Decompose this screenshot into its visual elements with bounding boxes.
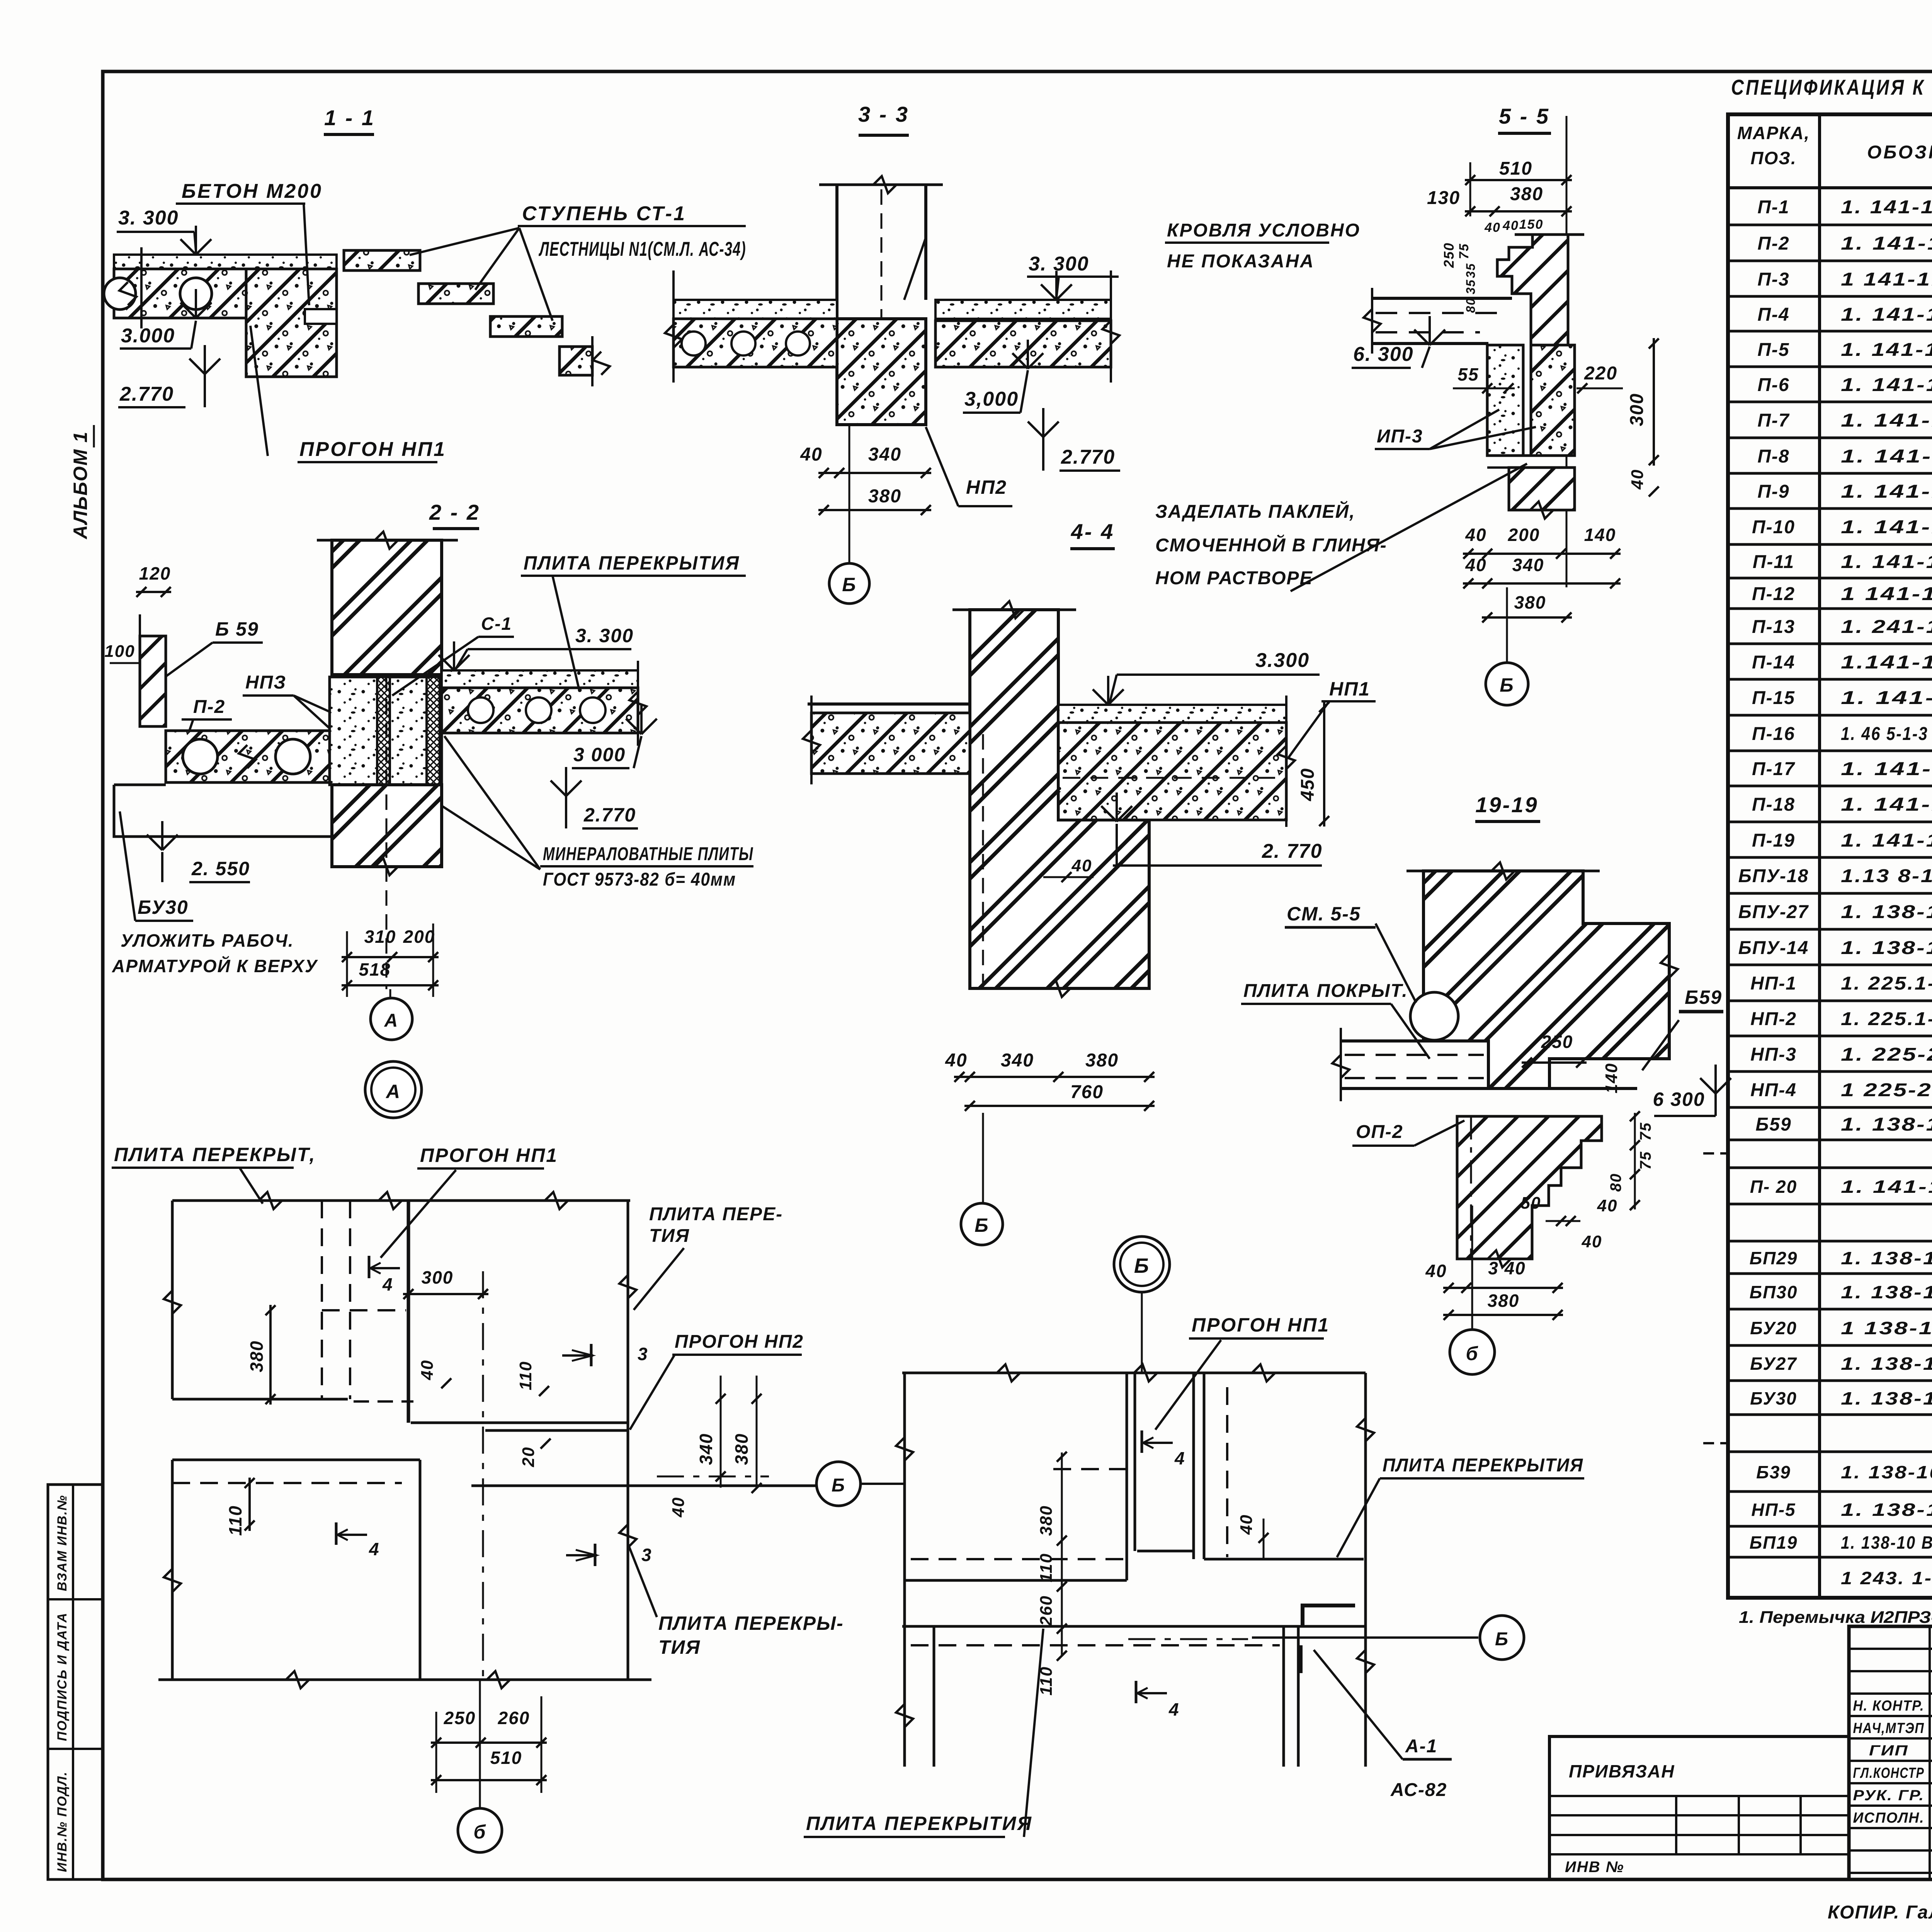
svg-text:3. 300: 3. 300 bbox=[575, 625, 634, 646]
svg-text:БУ27: БУ27 bbox=[1750, 1354, 1797, 1374]
section 19-19 roof slab left bbox=[1341, 1039, 1488, 1043]
section 19-19 masonry block hatched bbox=[1423, 871, 1669, 1088]
svg-text:760: 760 bbox=[1070, 1082, 1104, 1102]
svg-text:140: 140 bbox=[1602, 1063, 1621, 1093]
svg-text:МАРКА,: МАРКА, bbox=[1737, 123, 1810, 143]
svg-text:4: 4 bbox=[1168, 1699, 1180, 1719]
svg-text:ПЛИТА ПЕРЕКРЫ-: ПЛИТА ПЕРЕКРЫ- bbox=[658, 1612, 844, 1634]
svg-text:НП-5: НП-5 bbox=[1751, 1500, 1796, 1520]
svg-text:УЛОЖИТЬ РАБОЧ.: УЛОЖИТЬ РАБОЧ. bbox=[121, 930, 294, 951]
svg-text:П-2: П-2 bbox=[193, 697, 225, 717]
svg-text:СТУПЕНЬ СТ-1: СТУПЕНЬ СТ-1 bbox=[522, 202, 686, 225]
double circle B axis mark bbox=[1114, 1236, 1170, 1292]
svg-text:380: 380 bbox=[1037, 1505, 1056, 1536]
plan1 mid horizontal lines bbox=[411, 1422, 628, 1424]
section 1-1 stair step ST-1 no.2 bbox=[418, 284, 493, 304]
svg-text:1. 141-1 В. 14: 1. 141-1 В. 14 bbox=[1841, 1177, 1932, 1197]
signature table grid bbox=[1849, 1648, 1932, 1650]
section 2-2 column block with joint strips bbox=[330, 677, 442, 785]
svg-text:Б59: Б59 bbox=[1685, 986, 1722, 1008]
svg-text:ПЛИТА ПЕРЕКРЫТИЯ: ПЛИТА ПЕРЕКРЫТИЯ bbox=[1383, 1455, 1583, 1476]
svg-text:П-7: П-7 bbox=[1757, 410, 1790, 431]
section 5-5 lower wall bbox=[1509, 468, 1575, 510]
svg-text:А-1: А-1 bbox=[1405, 1736, 1437, 1757]
plan2 arrow 4 lower bbox=[1135, 1681, 1138, 1703]
svg-text:Б39: Б39 bbox=[1756, 1462, 1791, 1482]
svg-text:3,000: 3,000 bbox=[964, 388, 1019, 410]
svg-text:ПОДПИСЬ И ДАТА: ПОДПИСЬ И ДАТА bbox=[55, 1612, 70, 1741]
plan1 left wall line bbox=[171, 1201, 174, 1399]
svg-text:РУК. ГР.: РУК. ГР. bbox=[1853, 1787, 1925, 1804]
svg-text:1. 138-10 В. 1: 1. 138-10 В. 1 bbox=[1841, 1388, 1932, 1408]
svg-text:260: 260 bbox=[1037, 1595, 1056, 1626]
svg-text:ПРИВЯЗАН: ПРИВЯЗАН bbox=[1569, 1761, 1675, 1781]
svg-text:Б: Б bbox=[842, 574, 856, 595]
svg-text:П-14: П-14 bbox=[1752, 652, 1795, 673]
svg-text:Н. КОНТР.: Н. КОНТР. bbox=[1853, 1698, 1925, 1714]
section 5-5 wall below insulation strip bbox=[1487, 345, 1523, 456]
section 2-2 lower wall hatched bbox=[332, 785, 442, 867]
section 2-2 double circle A bbox=[365, 1061, 422, 1118]
svg-text:НЕ ПОКАЗАНА: НЕ ПОКАЗАНА bbox=[1167, 251, 1315, 272]
svg-text:НОМ РАСТВОРЕ: НОМ РАСТВОРЕ bbox=[1155, 568, 1313, 588]
section 2-2 right slab screed bbox=[442, 670, 638, 688]
svg-text:1. 141-1. В 63: 1. 141-1. В 63 bbox=[1841, 197, 1932, 218]
svg-text:2.770: 2.770 bbox=[1061, 446, 1115, 468]
title block signature box outline bbox=[1849, 1626, 1932, 1879]
svg-text:1. Перемычка И2ПРЗ-11.38.Б отл: 1. Перемычка И2ПРЗ-11.38.Б отличается от… bbox=[1739, 1608, 1932, 1627]
svg-text:55: 55 bbox=[1458, 364, 1479, 384]
svg-text:А: А bbox=[384, 1010, 399, 1031]
svg-text:380: 380 bbox=[1488, 1291, 1520, 1311]
svg-text:150: 150 bbox=[1519, 217, 1544, 232]
svg-text:2.770: 2.770 bbox=[119, 383, 174, 405]
svg-text:БУ30: БУ30 bbox=[138, 896, 189, 918]
svg-text:300: 300 bbox=[422, 1267, 454, 1287]
svg-text:БУ20: БУ20 bbox=[1750, 1318, 1797, 1338]
svg-text:1. 46 5-1-3 /80 ВЫП. 5: 1. 46 5-1-3 /80 ВЫП. 5 bbox=[1841, 724, 1932, 744]
svg-text:ТИЯ: ТИЯ bbox=[658, 1636, 701, 1658]
svg-text:1. 141-1 В. 63: 1. 141-1 В. 63 bbox=[1841, 446, 1932, 467]
svg-text:80: 80 bbox=[1464, 298, 1478, 313]
svg-text:ПЛИТА ПЕРЕКРЫТ,: ПЛИТА ПЕРЕКРЫТ, bbox=[114, 1144, 316, 1165]
svg-text:1. 138-10 В. 2: 1. 138-10 В. 2 bbox=[1841, 1282, 1932, 1302]
plan2 axis circle B right bbox=[1252, 1636, 1478, 1639]
section 4-4 wall hatched bbox=[970, 610, 1149, 988]
svg-text:ЗАДЕЛАТЬ ПАКЛЕЙ,: ЗАДЕЛАТЬ ПАКЛЕЙ, bbox=[1155, 501, 1355, 522]
svg-text:П-13: П-13 bbox=[1752, 617, 1795, 637]
svg-text:1. 138-10 В. 4: 1. 138-10 В. 4 bbox=[1841, 1114, 1932, 1135]
svg-text:БП19: БП19 bbox=[1750, 1532, 1798, 1553]
svg-text:Б: Б bbox=[1134, 1254, 1150, 1277]
svg-text:40: 40 bbox=[669, 1497, 688, 1518]
plan1 marks 3 right bbox=[590, 1344, 593, 1366]
plan1 axis circle b bottom bbox=[479, 1680, 481, 1808]
svg-text:380: 380 bbox=[868, 486, 901, 507]
svg-text:П-16: П-16 bbox=[1752, 724, 1795, 744]
plan2 long mid line bbox=[902, 1625, 1366, 1628]
section 2-2 foundation outline bbox=[114, 785, 338, 837]
plan1 lower-left room bbox=[172, 1459, 420, 1461]
svg-text:КОПИР. Гал: КОПИР. Гал bbox=[1828, 1902, 1932, 1923]
section 5-5 wall top hatched with steps bbox=[1497, 235, 1568, 345]
svg-text:ПЛИТА ПЕРЕКРЫТИЯ: ПЛИТА ПЕРЕКРЫТИЯ bbox=[524, 552, 740, 574]
section 3-3 left slab screed bbox=[673, 300, 837, 319]
section 19-19 axis circle b bbox=[1471, 1206, 1473, 1329]
separator dash marks bbox=[1703, 1152, 1728, 1155]
plan1 top chord line bbox=[172, 1199, 630, 1202]
svg-text:3.000: 3.000 bbox=[121, 325, 175, 347]
svg-text:40: 40 bbox=[418, 1360, 437, 1381]
svg-text:ИНВ №: ИНВ № bbox=[1565, 1859, 1624, 1876]
svg-text:1 141-1. В 63: 1 141-1. В 63 bbox=[1841, 269, 1932, 290]
svg-text:510: 510 bbox=[490, 1748, 522, 1768]
svg-text:А: А bbox=[385, 1081, 401, 1102]
svg-text:19-19: 19-19 bbox=[1475, 793, 1538, 817]
plan1 dashed panel edges upper-left bbox=[321, 1201, 323, 1399]
svg-text:б: б bbox=[474, 1821, 486, 1843]
svg-text:1. 141-1 В. 63: 1. 141-1 В. 63 bbox=[1841, 552, 1932, 572]
plan1 long line to axis B bbox=[471, 1485, 816, 1487]
svg-text:П-9: П-9 bbox=[1757, 481, 1789, 502]
svg-text:ИП-3: ИП-3 bbox=[1377, 426, 1423, 447]
plan2 axis circle B left bbox=[816, 1462, 861, 1506]
svg-text:Б: Б bbox=[975, 1214, 989, 1236]
svg-text:1. 138-10. В. 3: 1. 138-10. В. 3 bbox=[1841, 1500, 1932, 1520]
svg-text:П-17: П-17 bbox=[1752, 759, 1795, 779]
svg-text:1. 225.1-3: 1. 225.1-3 bbox=[1841, 1009, 1932, 1029]
svg-text:35: 35 bbox=[1464, 279, 1478, 294]
section 5-5 wall below hatched strip bbox=[1531, 345, 1575, 456]
svg-text:НП2: НП2 bbox=[966, 476, 1007, 498]
section 4-4 right slab screed bbox=[1058, 705, 1286, 723]
svg-text:340: 340 bbox=[1512, 555, 1544, 575]
svg-text:ТИЯ: ТИЯ bbox=[649, 1226, 690, 1246]
section 19-19 cornice below hatched bbox=[1457, 1116, 1602, 1259]
svg-text:ПРОГОН НП1: ПРОГОН НП1 bbox=[420, 1145, 558, 1166]
svg-text:3: 3 bbox=[641, 1545, 652, 1565]
svg-text:1.141-1 В. 63: 1.141-1 В. 63 bbox=[1841, 652, 1932, 673]
svg-text:НП-1: НП-1 bbox=[1750, 973, 1797, 994]
svg-text:1. 141-1 В. 60: 1. 141-1 В. 60 bbox=[1841, 304, 1932, 325]
svg-text:1 225-2 В. 11: 1 225-2 В. 11 bbox=[1841, 1080, 1932, 1100]
svg-text:ПРОГОН НП2: ПРОГОН НП2 bbox=[675, 1332, 804, 1352]
svg-text:250: 250 bbox=[1541, 1032, 1573, 1052]
svg-text:75: 75 bbox=[1637, 1122, 1654, 1141]
svg-text:НП-4: НП-4 bbox=[1750, 1080, 1797, 1100]
plan2 rotated dim chain 380 110 260 110 bbox=[1061, 1452, 1063, 1656]
svg-text:3 40: 3 40 bbox=[1488, 1258, 1526, 1278]
svg-text:АЛЬБОМ 1: АЛЬБОМ 1 bbox=[70, 431, 91, 540]
spec table group 2 rows P-20 bbox=[1728, 1167, 1932, 1169]
svg-text:2.770: 2.770 bbox=[583, 804, 636, 826]
svg-text:380: 380 bbox=[1085, 1050, 1119, 1071]
svg-text:1. 141-1 В 60: 1. 141-1 В 60 bbox=[1841, 688, 1932, 708]
section 5-5 axis circle B bbox=[1506, 587, 1508, 663]
svg-text:50: 50 bbox=[1521, 1194, 1541, 1213]
plan1 right wall line bbox=[627, 1201, 629, 1680]
svg-text:1 141-1 В. 14: 1 141-1 В. 14 bbox=[1841, 584, 1932, 604]
section 19-19 right vertical dims 75 75 80 bbox=[1634, 1113, 1636, 1209]
svg-text:П-10: П-10 bbox=[1752, 517, 1795, 537]
svg-text:ОП-2: ОП-2 bbox=[1356, 1122, 1403, 1142]
svg-text:Б: Б bbox=[1495, 1629, 1509, 1650]
svg-text:100: 100 bbox=[104, 642, 135, 661]
section 4-4 axis and circle B bbox=[982, 1113, 984, 1202]
svg-text:3 000: 3 000 bbox=[573, 744, 626, 765]
svg-text:П-2: П-2 bbox=[1757, 233, 1789, 254]
svg-text:518: 518 bbox=[359, 959, 391, 980]
svg-text:ИНВ.№ ПОДЛ.: ИНВ.№ ПОДЛ. bbox=[55, 1771, 70, 1872]
svg-text:1. 141-1 В. 60: 1. 141-1 В. 60 bbox=[1841, 759, 1932, 779]
svg-text:75: 75 bbox=[1637, 1151, 1654, 1170]
svg-text:1. 141-1 В. 60: 1. 141-1 В. 60 bbox=[1841, 794, 1932, 815]
svg-text:НП-2: НП-2 bbox=[1750, 1009, 1797, 1029]
svg-text:110: 110 bbox=[1037, 1553, 1056, 1582]
svg-text:1. 138-10 В 1: 1. 138-10 В 1 bbox=[1841, 1462, 1932, 1482]
plan1 arrow mark 4 lower bbox=[335, 1522, 338, 1545]
svg-text:250: 250 bbox=[444, 1708, 476, 1728]
svg-text:1. 141-1 В. 14: 1. 141-1 В. 14 bbox=[1841, 830, 1932, 851]
svg-text:П- 20: П- 20 bbox=[1750, 1177, 1797, 1197]
svg-text:380: 380 bbox=[731, 1433, 752, 1465]
svg-text:40: 40 bbox=[945, 1050, 967, 1071]
svg-text:2. 550: 2. 550 bbox=[191, 858, 250, 879]
svg-text:Б 59: Б 59 bbox=[215, 618, 259, 640]
spec table data rows group 1 bbox=[1728, 224, 1932, 226]
svg-text:1. 141-1 В. 63: 1. 141-1 В. 63 bbox=[1841, 517, 1932, 537]
svg-text:140: 140 bbox=[1584, 525, 1616, 545]
svg-text:75: 75 bbox=[1457, 243, 1471, 259]
svg-text:250: 250 bbox=[1441, 242, 1457, 268]
svg-text:40: 40 bbox=[1071, 856, 1092, 875]
svg-text:ПРОГОН НП1: ПРОГОН НП1 bbox=[1192, 1314, 1330, 1336]
svg-text:2 - 2: 2 - 2 bbox=[429, 500, 480, 524]
svg-text:НП1: НП1 bbox=[1329, 678, 1370, 700]
svg-text:340: 340 bbox=[696, 1433, 716, 1465]
section 5-5 vertical dim 300 and 40 bbox=[1653, 338, 1655, 466]
svg-text:П-1: П-1 bbox=[1757, 197, 1789, 218]
svg-text:300: 300 bbox=[1627, 393, 1647, 426]
svg-text:40: 40 bbox=[1484, 220, 1501, 235]
svg-text:380: 380 bbox=[1510, 184, 1543, 204]
svg-text:П-4: П-4 bbox=[1757, 304, 1789, 325]
svg-text:200: 200 bbox=[1508, 525, 1540, 545]
section 3-3 wall below slab hatched bbox=[837, 319, 926, 425]
svg-text:СМОЧЕННОЙ В ГЛИНЯ-: СМОЧЕННОЙ В ГЛИНЯ- bbox=[1155, 534, 1387, 556]
svg-text:120: 120 bbox=[139, 563, 171, 583]
svg-text:Б59: Б59 bbox=[1755, 1114, 1791, 1135]
svg-text:б: б bbox=[1466, 1343, 1479, 1364]
svg-text:НПЗ: НПЗ bbox=[245, 672, 286, 693]
section 2-2 right slab with cores bbox=[442, 688, 638, 733]
section 2-2 upper wall hatched bbox=[332, 540, 442, 675]
svg-text:40: 40 bbox=[1502, 218, 1519, 233]
privyazan box bbox=[1549, 1736, 1849, 1879]
svg-text:130: 130 bbox=[1427, 188, 1460, 208]
section 3-3 right slab bbox=[935, 321, 1111, 367]
plan2 left wall line bbox=[903, 1373, 906, 1767]
svg-text:ВЗАМ ИНВ.№: ВЗАМ ИНВ.№ bbox=[55, 1495, 70, 1591]
section 19-19 detail bubble SM 5-5 bbox=[1410, 992, 1458, 1040]
svg-text:6. 300: 6. 300 bbox=[1353, 343, 1414, 366]
svg-text:4- 4: 4- 4 bbox=[1071, 519, 1115, 544]
svg-text:1.13 8-10 В. 2: 1.13 8-10 В. 2 bbox=[1841, 866, 1932, 886]
section 2-2 small pier hatched bbox=[140, 636, 166, 726]
svg-text:П-3: П-3 bbox=[1757, 269, 1789, 290]
svg-text:35: 35 bbox=[1464, 263, 1478, 278]
svg-text:3: 3 bbox=[638, 1344, 648, 1364]
section 1-1 stair step ST-1 no.3 bbox=[490, 316, 562, 337]
svg-text:6 300: 6 300 bbox=[1653, 1088, 1705, 1110]
svg-text:1 243. 1-4: 1 243. 1-4 bbox=[1841, 1568, 1932, 1588]
svg-text:1. 141-1. В. 63: 1. 141-1. В. 63 bbox=[1841, 233, 1932, 254]
svg-text:510: 510 bbox=[1499, 158, 1532, 179]
svg-text:450: 450 bbox=[1298, 768, 1318, 801]
svg-text:380: 380 bbox=[1514, 592, 1546, 612]
svg-text:СПЕЦИФИКАЦИЯ К СХЕМАМ РАСПОЛОЖ: СПЕЦИФИКАЦИЯ К СХЕМАМ РАСПОЛОЖЕНИЯ ЭЛЕМЕ… bbox=[1731, 75, 1932, 99]
svg-text:220: 220 bbox=[1584, 363, 1617, 384]
svg-text:40: 40 bbox=[1465, 525, 1486, 545]
plan1 arrow mark 4 upper bbox=[368, 1256, 371, 1278]
section 4-4 left slab bbox=[808, 702, 970, 706]
svg-text:АС-82: АС-82 bbox=[1390, 1780, 1447, 1800]
svg-text:40: 40 bbox=[1425, 1261, 1447, 1281]
svg-text:20: 20 bbox=[519, 1447, 538, 1468]
svg-text:ПЛИТА ПЕРЕКРЫТИЯ: ПЛИТА ПЕРЕКРЫТИЯ bbox=[806, 1813, 1032, 1834]
plan2 right wall line bbox=[1364, 1373, 1367, 1767]
svg-text:БУ30: БУ30 bbox=[1750, 1388, 1797, 1408]
svg-text:БП30: БП30 bbox=[1750, 1282, 1798, 1302]
svg-text:АРМАТУРОЙ К ВЕРХУ: АРМАТУРОЙ К ВЕРХУ bbox=[112, 956, 318, 976]
section 1-1 stair step ST-1 no.4 bbox=[560, 347, 592, 375]
svg-text:П-6: П-6 bbox=[1757, 375, 1789, 395]
svg-text:МИНЕРАЛОВАТНЫЕ ПЛИТЫ: МИНЕРАЛОВАТНЫЕ ПЛИТЫ bbox=[543, 844, 753, 864]
svg-text:40: 40 bbox=[1237, 1514, 1256, 1535]
svg-text:НАЧ,МТЭП: НАЧ,МТЭП bbox=[1853, 1720, 1925, 1736]
svg-text:5 - 5: 5 - 5 bbox=[1499, 104, 1550, 128]
plan1 plita label right lower bbox=[628, 1544, 657, 1617]
section 2-2 floor slab left with cores bbox=[166, 731, 330, 782]
section 3-3 axis line and circle B bbox=[849, 425, 850, 563]
svg-text:Б: Б bbox=[832, 1475, 845, 1496]
svg-text:4: 4 bbox=[382, 1274, 393, 1294]
svg-text:40: 40 bbox=[1597, 1196, 1618, 1215]
svg-text:260: 260 bbox=[498, 1708, 530, 1728]
svg-text:КРОВЛЯ УСЛОВНО: КРОВЛЯ УСЛОВНО bbox=[1167, 220, 1361, 241]
svg-text:1. 141-1 В. 63: 1. 141-1 В. 63 bbox=[1841, 375, 1932, 395]
section 5-5 roof slab bbox=[1372, 297, 1512, 300]
svg-text:П-5: П-5 bbox=[1757, 340, 1789, 360]
section 3-3 left slab with cores bbox=[673, 319, 837, 367]
svg-text:НП-3: НП-3 bbox=[1750, 1044, 1797, 1065]
plan2 arrow 4 upper bbox=[1141, 1430, 1143, 1453]
section 3-3 wall above slab bbox=[835, 185, 838, 319]
plan1 girder line vertical bbox=[407, 1201, 410, 1423]
svg-text:ПЛИТА ПОКРЫТ.: ПЛИТА ПОКРЫТ. bbox=[1243, 981, 1408, 1001]
svg-text:БП29: БП29 bbox=[1750, 1248, 1798, 1268]
svg-text:ГОСТ 9573-82 б= 40мм: ГОСТ 9573-82 б= 40мм bbox=[543, 869, 736, 890]
svg-text:1. 141-1 В 63: 1. 141-1 В 63 bbox=[1841, 340, 1932, 360]
svg-text:1. 138-10 В. 1: 1. 138-10 В. 1 bbox=[1841, 1354, 1932, 1374]
plan2 top chord line bbox=[902, 1372, 1366, 1374]
svg-text:ГЛ.КОНСТР: ГЛ.КОНСТР bbox=[1853, 1765, 1925, 1781]
svg-text:ПЛИТА ПЕРЕ-: ПЛИТА ПЕРЕ- bbox=[649, 1204, 783, 1225]
svg-text:П-19: П-19 bbox=[1752, 830, 1795, 851]
svg-text:2. 770: 2. 770 bbox=[1262, 840, 1323, 862]
dashed line above P-20 row bbox=[1728, 1167, 1932, 1169]
plan2 inner verticals bbox=[1126, 1373, 1128, 1580]
svg-text:1. 138-10 В. 2: 1. 138-10 В. 2 bbox=[1841, 902, 1932, 922]
svg-text:1. 141-1 В. 63: 1. 141-1 В. 63 bbox=[1841, 410, 1932, 431]
section 1-1 girder block bbox=[246, 269, 337, 377]
svg-text:3 - 3: 3 - 3 bbox=[858, 102, 909, 126]
svg-text:40: 40 bbox=[800, 444, 822, 465]
svg-text:С-1: С-1 bbox=[481, 614, 512, 634]
plan2 axis double circle B top connector bbox=[1141, 1292, 1143, 1373]
svg-text:П-12: П-12 bbox=[1752, 584, 1795, 604]
svg-text:1. 241-1 В. 63: 1. 241-1 В. 63 bbox=[1841, 617, 1932, 637]
svg-text:СМ. 5-5: СМ. 5-5 bbox=[1287, 903, 1361, 925]
section 1-1 slab band with cores bbox=[114, 269, 246, 318]
svg-text:ИСПОЛН.: ИСПОЛН. bbox=[1853, 1810, 1925, 1826]
plan1 upper-left room bottom line bbox=[172, 1398, 348, 1401]
svg-text:110: 110 bbox=[225, 1505, 245, 1536]
svg-text:1. 225.1-3: 1. 225.1-3 bbox=[1841, 973, 1932, 994]
svg-text:200: 200 bbox=[403, 927, 435, 947]
section 3-3 right slab screed bbox=[935, 300, 1111, 319]
spec table vertical lines bbox=[1818, 114, 1821, 1598]
section 2-2 axis dashed line bbox=[386, 675, 388, 989]
svg-text:БПУ-14: БПУ-14 bbox=[1738, 938, 1809, 958]
svg-text:1 138-10 В. 1: 1 138-10 В. 1 bbox=[1841, 1318, 1932, 1338]
section 1-1 stair step ST-1 no.1 bbox=[344, 250, 420, 270]
section 4-4 right slab bbox=[1058, 723, 1286, 820]
svg-text:380: 380 bbox=[247, 1340, 267, 1372]
svg-text:110: 110 bbox=[516, 1361, 535, 1390]
svg-text:340: 340 bbox=[1001, 1050, 1034, 1071]
svg-text:ГИП: ГИП bbox=[1869, 1743, 1908, 1759]
section 1-1 screed band bbox=[114, 255, 337, 269]
svg-text:ЛЕСТНИЦЫ N1(СМ.Л. АС-34): ЛЕСТНИЦЫ N1(СМ.Л. АС-34) bbox=[538, 238, 746, 260]
svg-text:4: 4 bbox=[1174, 1448, 1185, 1468]
svg-text:1 - 1: 1 - 1 bbox=[324, 105, 375, 130]
svg-text:40: 40 bbox=[1628, 469, 1647, 490]
svg-text:ПРОГОН НП1: ПРОГОН НП1 bbox=[299, 438, 446, 461]
svg-text:БЕТОН М200: БЕТОН М200 bbox=[182, 180, 323, 202]
svg-text:80: 80 bbox=[1607, 1173, 1624, 1192]
spec table outer grid bbox=[1728, 114, 1932, 1598]
svg-text:3. 300: 3. 300 bbox=[118, 207, 179, 229]
section 2-2 axis circle A bbox=[389, 989, 391, 998]
svg-text:1. 138-10 В. 2: 1. 138-10 В. 2 bbox=[1841, 938, 1932, 958]
plan1 dash-dot horizontal right bbox=[657, 1476, 769, 1478]
plan2 dashed lines mid bbox=[1053, 1468, 1127, 1470]
svg-text:4: 4 bbox=[369, 1539, 380, 1559]
left sidebar boxes bbox=[48, 1485, 103, 1879]
svg-text:340: 340 bbox=[868, 444, 901, 465]
plan1 axis dash-dot vertical bbox=[482, 1271, 484, 1680]
svg-text:П-8: П-8 bbox=[1757, 446, 1789, 467]
svg-text:П-18: П-18 bbox=[1752, 794, 1795, 815]
svg-text:ПОЗ.: ПОЗ. bbox=[1750, 148, 1796, 168]
svg-text:П-15: П-15 bbox=[1752, 688, 1795, 708]
svg-text:П-11: П-11 bbox=[1753, 552, 1794, 572]
svg-text:40: 40 bbox=[1465, 555, 1486, 575]
svg-text:ОБОЗНАЧЕНИЕ: ОБОЗНАЧЕНИЕ bbox=[1867, 142, 1932, 163]
svg-text:310: 310 bbox=[364, 927, 396, 947]
svg-text:1. 138-10 В.2 л АСИ-7: 1. 138-10 В.2 л АСИ-7 bbox=[1841, 1532, 1932, 1553]
